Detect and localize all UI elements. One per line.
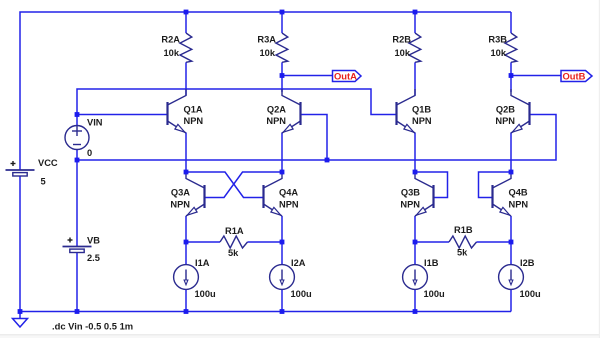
junction node OutA <box>280 73 285 78</box>
svg-text:R2B: R2B <box>392 35 411 45</box>
junction node OutB <box>509 73 514 78</box>
voltage source VIN <box>65 126 89 150</box>
wire top rail <box>20 12 511 170</box>
resistor R3A <box>276 33 288 62</box>
wire VIN up and across to Q1B base <box>77 89 396 115</box>
wire Q4A emitter lead <box>281 216 283 242</box>
svg-text:I2A: I2A <box>291 258 306 268</box>
svg-text:10k: 10k <box>490 48 506 58</box>
wire Q2B emitter to node <box>510 133 512 173</box>
svg-text:NPN: NPN <box>509 200 529 210</box>
svg-text:OutA: OutA <box>334 71 357 82</box>
svg-text:R2A: R2A <box>161 35 180 45</box>
svg-text:10k: 10k <box>163 48 179 58</box>
svg-text:I1B: I1B <box>424 258 439 268</box>
wire Q3B emitter lead <box>414 216 416 242</box>
wire left rail lower <box>19 176 21 312</box>
junction R1B left <box>413 240 418 245</box>
wire VB to bottom rail <box>76 253 78 312</box>
wire I1B top lead <box>414 242 416 265</box>
svg-text:5k: 5k <box>228 248 239 258</box>
svg-text:Q3A: Q3A <box>171 188 190 198</box>
wire Q1A emitter to node <box>185 133 187 173</box>
wire I1A top lead <box>185 242 187 265</box>
svg-text:R1A: R1A <box>225 226 244 236</box>
svg-text:Q1B: Q1B <box>412 105 431 115</box>
wire VB branch <box>76 160 78 247</box>
wire R2B top lead <box>414 12 416 33</box>
wire R1A left lead <box>186 241 220 243</box>
battery VCC <box>6 161 35 176</box>
wire I2B bottom lead <box>510 290 512 312</box>
svg-text:NPN: NPN <box>184 116 204 126</box>
svg-text:2.5: 2.5 <box>87 253 100 263</box>
svg-text:R1B: R1B <box>454 225 473 235</box>
wire I1A bottom lead <box>185 290 187 312</box>
svg-text:NPN: NPN <box>495 116 515 126</box>
svg-text:Q2A: Q2A <box>267 105 286 115</box>
transistor Q4A <box>264 172 283 216</box>
battery VB <box>63 238 92 253</box>
svg-text:100u: 100u <box>424 289 446 299</box>
junction ground node <box>18 309 23 314</box>
wire Q4B base loop <box>479 172 512 198</box>
wire I2A bottom lead <box>281 290 283 312</box>
transistor Q1A <box>168 89 187 133</box>
svg-text:NPN: NPN <box>266 116 286 126</box>
wire Q2A emitter to node <box>281 133 283 173</box>
wire cross couple A left-to-right <box>186 172 264 198</box>
node OutA flag <box>333 71 362 82</box>
wire R1B left lead <box>415 241 449 243</box>
junction R2A top <box>184 10 189 15</box>
wire R1B right lead <box>477 241 512 243</box>
transistor Q3A <box>186 172 205 216</box>
wire I1B bottom lead <box>414 290 416 312</box>
resistor R1B <box>449 236 477 248</box>
resistor R1A <box>220 236 248 248</box>
ground <box>13 312 28 328</box>
wire R3A bottom lead to OutA node <box>281 62 283 92</box>
wire I2B top lead <box>510 242 512 265</box>
wire Q2A base drop <box>301 115 328 161</box>
wire Q3A emitter lead <box>185 216 187 242</box>
wire R2A bottom lead to Q1A collector <box>185 62 187 95</box>
transistor Q3B <box>415 172 434 216</box>
svg-text:OutB: OutB <box>563 71 586 82</box>
svg-text:VCC: VCC <box>38 158 58 168</box>
wire OutA stub <box>282 75 333 77</box>
wire R3A top lead <box>281 12 283 33</box>
wire R2B bottom lead to Q1B collector <box>414 62 416 95</box>
junction R1B right <box>509 240 514 245</box>
current source I1A <box>174 265 199 290</box>
junction VB top <box>75 158 80 163</box>
svg-text:NPN: NPN <box>412 116 432 126</box>
svg-text:100u: 100u <box>195 289 217 299</box>
window bottom edge <box>0 335 600 338</box>
junction Q4B collector <box>509 170 514 175</box>
wire long VB net <box>77 115 556 161</box>
svg-text:Q2B: Q2B <box>496 105 515 115</box>
wire R2A top lead <box>185 12 187 33</box>
svg-text:.dc Vin -0.5 0.5 1m: .dc Vin -0.5 0.5 1m <box>52 321 133 332</box>
node OutB flag <box>561 71 592 82</box>
junction R1A right <box>280 240 285 245</box>
svg-text:10k: 10k <box>259 48 275 58</box>
svg-text:NPN: NPN <box>400 200 420 210</box>
svg-text:0: 0 <box>87 148 92 158</box>
junction I2A bottom <box>280 309 285 314</box>
junction Q3B collector <box>413 170 418 175</box>
svg-text:100u: 100u <box>520 289 542 299</box>
transistor Q2B <box>511 89 530 133</box>
resistor R2A <box>180 33 192 62</box>
svg-text:VIN: VIN <box>87 118 103 128</box>
wire VIN to Q1A base <box>77 114 168 116</box>
junction I1B bottom <box>413 309 418 314</box>
svg-text:Q1A: Q1A <box>184 105 203 115</box>
svg-text:10k: 10k <box>394 48 410 58</box>
current source I2B <box>499 265 524 290</box>
wire Q4B emitter lead <box>510 216 512 242</box>
resistor R2B <box>409 33 421 62</box>
current source I1B <box>403 265 428 290</box>
wire R1A right lead <box>248 241 283 243</box>
svg-text:I1A: I1A <box>195 258 210 268</box>
junction VIN plus <box>75 112 80 117</box>
wire VIN branch upper <box>76 115 78 126</box>
svg-text:R3B: R3B <box>488 35 507 45</box>
wire I2A top lead <box>281 242 283 265</box>
svg-text:NPN: NPN <box>279 200 299 210</box>
wire VIN branch lower <box>76 150 78 161</box>
junction R2B top <box>413 10 418 15</box>
transistor Q4B <box>493 172 512 216</box>
current source I2A <box>270 265 295 290</box>
wire R3B top lead <box>510 12 512 33</box>
transistor Q2A <box>282 89 301 133</box>
wire Q1B emitter to node <box>414 133 416 173</box>
svg-text:R3A: R3A <box>257 35 276 45</box>
svg-text:5k: 5k <box>457 248 468 258</box>
svg-text:NPN: NPN <box>170 200 190 210</box>
svg-text:Q4B: Q4B <box>509 188 528 198</box>
wire OutB stub <box>511 75 561 77</box>
wire Q3B base loop <box>415 172 448 198</box>
junction I1A bottom <box>184 309 189 314</box>
junction Q4A collector <box>280 170 285 175</box>
wire R3B bottom lead to OutB node <box>510 62 512 92</box>
wire bottom rail <box>20 311 511 313</box>
wire cross couple A right-to-left <box>205 172 283 198</box>
junction R3A top <box>280 10 285 15</box>
junction R1A left <box>184 240 189 245</box>
junction VB bottom <box>75 309 80 314</box>
svg-text:Q4A: Q4A <box>279 188 298 198</box>
svg-text:5: 5 <box>41 177 46 187</box>
junction Q2A base drop <box>325 158 330 163</box>
svg-text:I2B: I2B <box>520 258 535 268</box>
svg-text:VB: VB <box>87 236 100 246</box>
transistor Q1B <box>397 89 416 133</box>
svg-text:Q3B: Q3B <box>401 188 420 198</box>
svg-text:100u: 100u <box>291 289 313 299</box>
resistor R3B <box>505 33 517 62</box>
junction Q3A collector <box>184 170 189 175</box>
